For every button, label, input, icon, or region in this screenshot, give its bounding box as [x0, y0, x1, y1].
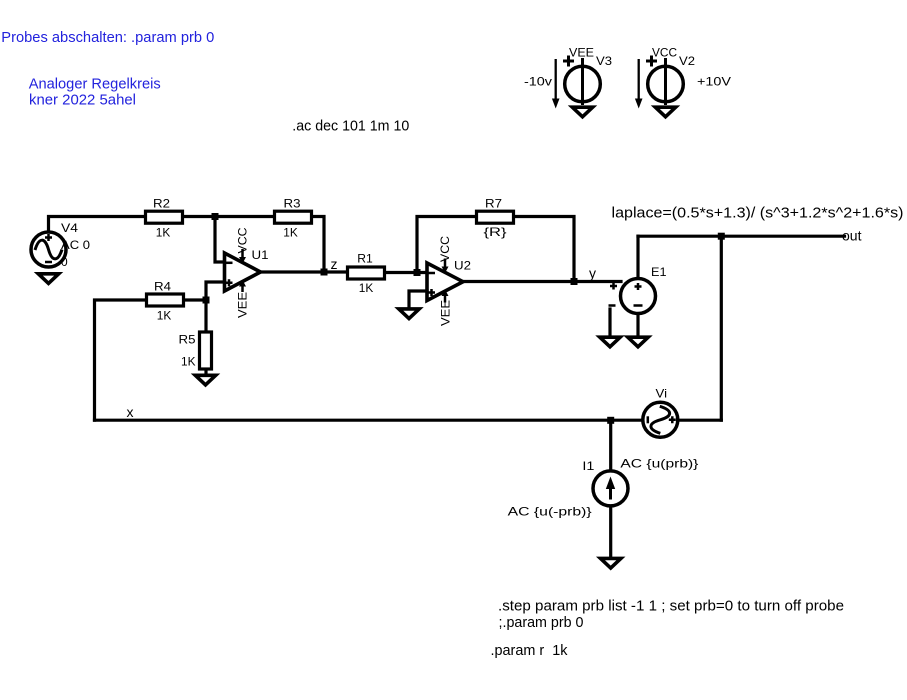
svg-text:out: out [842, 228, 862, 244]
svg-text:+10V: +10V [697, 75, 731, 89]
ground at U2 non-inverting input [399, 309, 419, 319]
wire node x down to I1 [609, 420, 612, 470]
ground below E1 [628, 337, 648, 347]
svg-text:Analoger Regelkreis: Analoger Regelkreis [29, 76, 161, 93]
resistor R3 [275, 211, 312, 223]
junction on out net [718, 233, 725, 240]
svg-text:.param r 1k: .param r 1k [491, 642, 568, 659]
wire Vi right to out net [679, 419, 722, 422]
wire out net [638, 235, 845, 238]
svg-text:V3: V3 [596, 54, 612, 68]
voltage source V2 (VCC supply) [635, 56, 683, 109]
svg-text:.ac dec 101 1m 10: .ac dec 101 1m 10 [292, 118, 409, 135]
wire R7 right down to node y [516, 217, 575, 282]
ground at E1 control minus [600, 337, 620, 347]
svg-text:R7: R7 [485, 197, 502, 211]
op-amp U1 [225, 249, 261, 292]
svg-text:Probes abschalten: .param prb: Probes abschalten: .param prb 0 [1, 29, 214, 46]
ground below V4 [38, 274, 58, 284]
svg-text:.step param prb list -1 1 ; se: .step param prb list -1 1 ; set prb=0 to… [498, 598, 844, 615]
svg-text:x: x [127, 404, 134, 420]
svg-text:R1: R1 [357, 252, 373, 266]
svg-text:AC {u(-prb)}: AC {u(-prb)} [508, 505, 592, 519]
wire feedback up to R7 left [417, 217, 475, 273]
svg-text:AC 0: AC 0 [61, 238, 90, 252]
svg-text:VCC: VCC [236, 227, 250, 253]
resistor R1 [348, 267, 385, 279]
svg-text:R3: R3 [284, 197, 301, 211]
op-amp U2 [427, 259, 463, 303]
svg-text:R4: R4 [154, 280, 171, 294]
resistor R5 [200, 332, 212, 369]
wire U2 output to E1 (node y) [463, 280, 621, 283]
svg-text:R2: R2 [153, 197, 170, 211]
voltage source V3 (VEE supply) [552, 56, 600, 109]
junction node R2/R3/U1- [212, 213, 219, 220]
current source I1 [593, 471, 628, 506]
resistor R7 [477, 211, 514, 223]
junction node z [321, 269, 328, 276]
wire R5 bottom to ground [204, 370, 207, 374]
ground below R5 [195, 375, 215, 385]
svg-text:z: z [331, 256, 338, 272]
svg-text:VEE: VEE [439, 300, 453, 326]
wire node to U1 non-inverting input [206, 282, 225, 300]
resistor R2 [146, 211, 183, 223]
wire R3 right down to node z [314, 217, 325, 273]
svg-text:{R}: {R} [484, 225, 507, 239]
wire V4 top to R2 [49, 217, 145, 232]
svg-text:1K: 1K [283, 226, 298, 240]
ground below I1 [601, 558, 621, 568]
svg-text:E1: E1 [651, 265, 667, 279]
svg-text:Vi: Vi [656, 387, 668, 401]
wire R2 right to node [185, 215, 216, 218]
wire R1 to U2 inverting input [387, 271, 428, 274]
resistor R4 [147, 294, 184, 306]
wire U2 non-inverting input to ground [409, 291, 427, 307]
svg-text:VCC: VCC [652, 46, 677, 60]
svg-text:y: y [589, 265, 596, 281]
voltage source V4 [31, 232, 66, 267]
wire node down to R5 [204, 300, 207, 331]
junction U2 feedback node [414, 269, 421, 276]
ground below V3 [572, 107, 592, 117]
svg-text:VEE: VEE [236, 292, 250, 318]
svg-text:-10v: -10v [524, 75, 552, 89]
wire R4 right to node [186, 298, 207, 301]
svg-text:AC {u(prb)}: AC {u(prb)} [620, 456, 698, 470]
wire E1 bottom pin to ground [636, 314, 639, 336]
svg-text:I1: I1 [582, 459, 594, 473]
wire U1 output to R1 (node z) [261, 270, 347, 273]
wire node down to U1 inverting input [215, 217, 225, 263]
wire E1 top pin [636, 236, 639, 277]
ground below V2 [655, 107, 675, 117]
svg-text:VCC: VCC [438, 236, 452, 262]
svg-text:VEE: VEE [569, 46, 594, 60]
svg-text:1K: 1K [181, 354, 196, 368]
svg-text:1K: 1K [156, 226, 171, 240]
svg-text:1K: 1K [359, 281, 374, 295]
svg-text:laplace=(0.5*s+1.3)/ (s^3+1.2*: laplace=(0.5*s+1.3)/ (s^3+1.2*s^2+1.6*s) [612, 205, 904, 222]
wire node to R3 [215, 215, 273, 218]
svg-text:U1: U1 [252, 248, 269, 262]
voltage source Vi [643, 402, 678, 437]
svg-text:kner 2022 5ahel: kner 2022 5ahel [29, 92, 136, 109]
svg-text:;.param prb 0: ;.param prb 0 [499, 614, 584, 631]
dependent source E1 [609, 279, 656, 314]
svg-text:U2: U2 [454, 259, 471, 273]
wire E1 control minus to ground [608, 309, 611, 336]
wire node x horizontal [95, 419, 642, 422]
wire node x up to R4 left [95, 300, 146, 420]
svg-text:V2: V2 [679, 54, 695, 68]
wire I1 bottom to ground [609, 507, 612, 558]
wire out net down to Vi [720, 236, 723, 420]
svg-text:V4: V4 [61, 221, 78, 235]
junction node x / I1 [607, 417, 614, 424]
junction node y [571, 278, 578, 285]
junction R4/R5/U1+ node [203, 297, 210, 304]
svg-text:1K: 1K [157, 309, 172, 323]
svg-text:R5: R5 [179, 333, 196, 347]
